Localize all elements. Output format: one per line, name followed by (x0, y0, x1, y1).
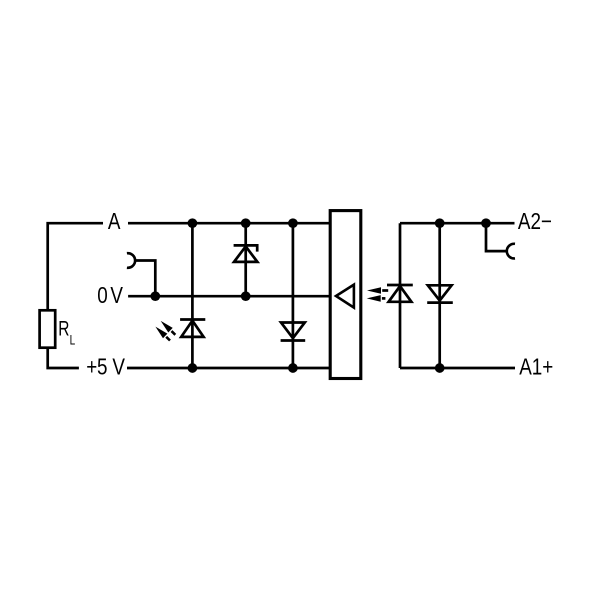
wire: A1+ rail (bottom right) (400, 367, 515, 370)
optocoupler receiver box (330, 211, 361, 379)
junction: reverse diode branch on A1+ rail (435, 363, 445, 373)
wire: reverse diode branch vertical (438, 223, 441, 368)
junction: reverse diode branch on A2- rail (435, 218, 445, 228)
clamp diode (cathode bar) (281, 339, 306, 342)
junction: LED branch on +5V rail (188, 363, 198, 373)
svg-text:A2−: A2− (518, 209, 552, 234)
junction: LED branch on A rail (188, 218, 198, 228)
contact socket (right tap arc) (507, 244, 515, 259)
Z-diode (triangle) (234, 246, 257, 262)
wire: input LED branch vertical (399, 223, 402, 368)
wire: left vertical with top A-rail stub (corner at 47.7,223) (48, 223, 103, 310)
LED status indicator (triangle) (181, 321, 203, 337)
LED status indicator (emission arrow upper) (161, 321, 176, 335)
svg-text:+5 V: +5 V (86, 355, 125, 380)
wire: +5V rail (from label to coupler box) (127, 367, 330, 370)
wire: A2- rail (top right) (400, 222, 515, 225)
reverse protection diode (triangle) (428, 285, 452, 300)
svg-text:R: R (58, 316, 69, 340)
svg-text:A: A (108, 210, 121, 235)
wire: 0V rail (from label to coupler box) (128, 295, 330, 298)
LED status indicator (cathode bar) (180, 318, 205, 321)
optocoupler input LED (triangle) (389, 286, 412, 302)
junction: Z-diode branch on 0V rail (241, 291, 251, 301)
svg-text:0 V: 0 V (97, 283, 123, 308)
svg-text:A1+: A1+ (519, 355, 553, 380)
clamp diode (triangle) (281, 323, 305, 339)
resistor RL (40, 310, 56, 347)
junction: clamp diode branch on A rail (288, 218, 298, 228)
optocoupler receiver (amplifier triangle) (336, 285, 354, 308)
LED status indicator (emission arrow lower) (155, 327, 170, 341)
wire: left vertical lower + bottom +5V stub (corner at 47.7,368) (48, 348, 79, 368)
svg-text:L: L (70, 332, 76, 348)
contact socket (left tap arc) (127, 253, 135, 268)
wire: left tap from socket down to 0V rail (134, 261, 155, 297)
reverse protection diode (cathode bar) (427, 301, 453, 304)
optocoupler input LED (emission arrow upper) (367, 287, 388, 294)
junction: Z-diode branch on A rail (241, 218, 251, 228)
Z-diode (cathode bar with hook) (234, 245, 258, 251)
wire: LED branch vertical (A rail to +5V rail) (191, 223, 194, 368)
wire: top A rail (from label to coupler box) (128, 222, 330, 225)
label RL (58, 316, 75, 348)
optocoupler input LED (emission arrow lower) (367, 295, 386, 302)
junction: right tap on A2- rail (481, 218, 491, 228)
optocoupler input LED (cathode bar) (387, 284, 413, 287)
junction: clamp diode branch on +5V rail (288, 363, 298, 373)
wire: clamp diode branch vertical (A rail to +5V rail) (292, 223, 295, 368)
wire: right tap from A2- rail to socket (486, 223, 507, 251)
wire: Z-diode branch vertical (A rail to 0V rail) (244, 223, 247, 296)
junction: left tap on 0V rail (150, 291, 160, 301)
